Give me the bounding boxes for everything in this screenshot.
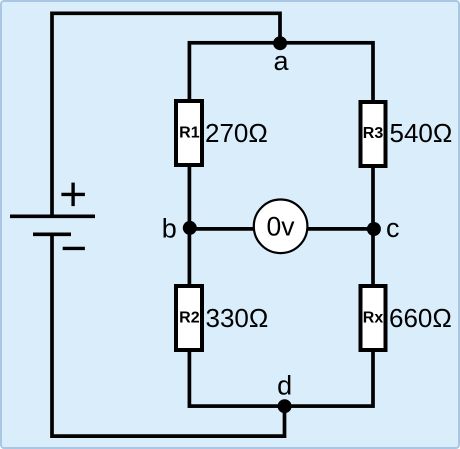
svg-text:d: d bbox=[277, 370, 292, 400]
svg-text:b: b bbox=[162, 214, 177, 244]
svg-text:540Ω: 540Ω bbox=[390, 118, 453, 148]
svg-text:R3: R3 bbox=[363, 125, 384, 142]
svg-text:a: a bbox=[273, 46, 289, 76]
svg-text:R1: R1 bbox=[179, 125, 200, 142]
svg-text:Rx: Rx bbox=[363, 310, 384, 327]
svg-text:0v: 0v bbox=[267, 212, 296, 242]
svg-text:330Ω: 330Ω bbox=[206, 303, 269, 333]
svg-text:270Ω: 270Ω bbox=[205, 118, 268, 148]
svg-text:c: c bbox=[386, 213, 400, 243]
svg-text:660Ω: 660Ω bbox=[389, 303, 452, 333]
svg-text:R2: R2 bbox=[179, 310, 200, 327]
